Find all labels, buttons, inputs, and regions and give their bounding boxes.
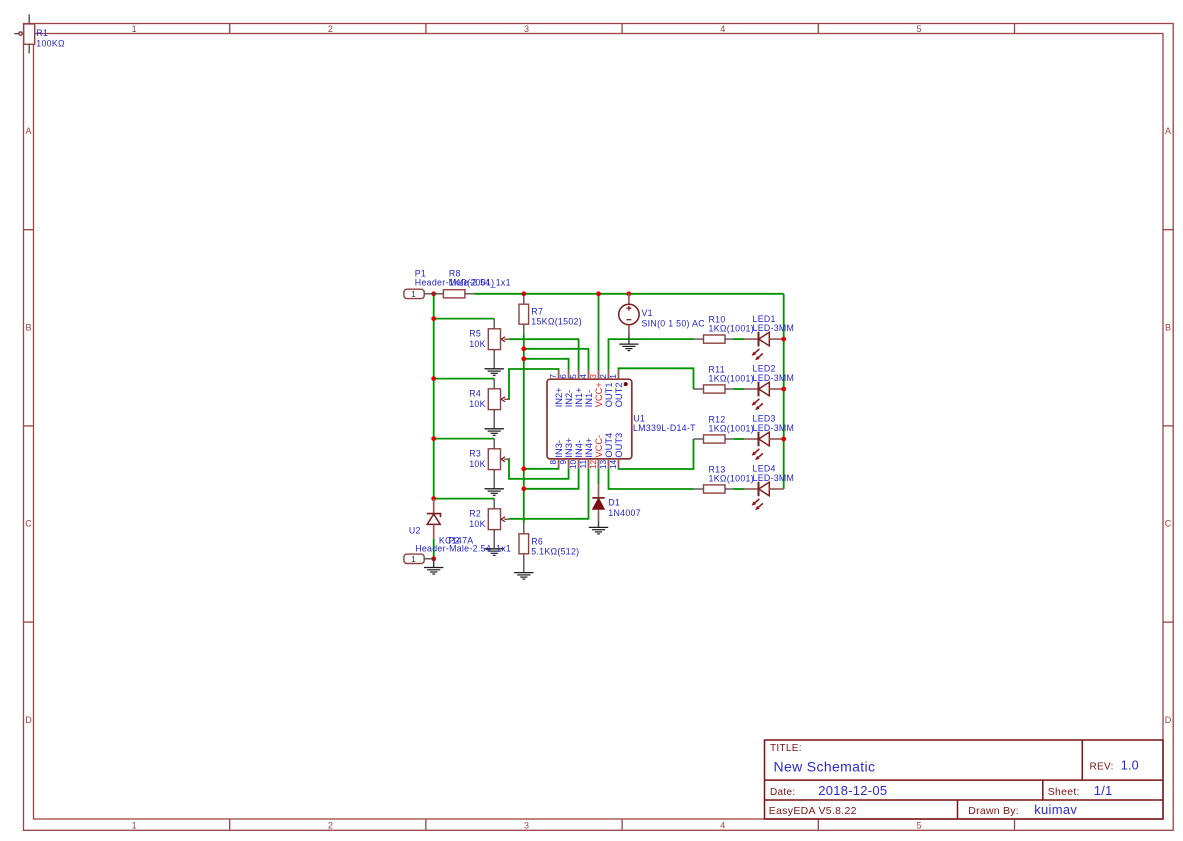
svg-text:C: C (25, 519, 32, 529)
zener diode U2 (427, 499, 441, 539)
svg-text:1/1: 1/1 (1094, 783, 1113, 798)
svg-text:B: B (25, 322, 31, 332)
svg-text:10K: 10K (469, 519, 486, 529)
wire R11 to LED2 (733, 388, 744, 390)
svg-text:OUT2: OUT2 (614, 383, 624, 408)
resistor R1 (14, 14, 35, 53)
junction node chain-pin8 (521, 466, 526, 471)
svg-text:3: 3 (524, 24, 529, 34)
U1 pin1 marker dot (624, 382, 628, 386)
frame row labels right (1165, 126, 1172, 725)
resistor R10 (694, 335, 734, 343)
svg-text:14: 14 (608, 460, 618, 470)
resistor R12 (694, 435, 734, 443)
svg-text:IN3-: IN3- (554, 440, 564, 458)
svg-text:LM339L-D14-T: LM339L-D14-T (633, 423, 696, 433)
junction node bus-R4 (431, 376, 436, 381)
junction node chain-pin10 (521, 486, 526, 491)
junction node P1/R8/bus (431, 291, 436, 296)
ground of R3 (485, 489, 504, 496)
svg-text:VCC-: VCC- (594, 435, 604, 458)
svg-text:R6: R6 (531, 536, 543, 546)
resistor R8 (434, 290, 474, 298)
potentiometer R3 (488, 439, 509, 489)
wire bus to R2 (434, 498, 495, 500)
svg-text:OUT1: OUT1 (604, 383, 614, 408)
svg-text:IN1+: IN1+ (574, 387, 584, 407)
ground of R4 (485, 429, 504, 436)
svg-text:Sheet:: Sheet: (1048, 786, 1080, 798)
svg-text:A: A (25, 126, 31, 136)
svg-text:SIN(0 1 50) AC: SIN(0 1 50) AC (642, 318, 706, 328)
svg-text:VCC+: VCC+ (594, 382, 604, 407)
svg-text:11: 11 (578, 460, 588, 469)
wire pin2 OUT1 to R10 (609, 339, 694, 370)
svg-text:9: 9 (558, 460, 568, 465)
LED LED3 (744, 432, 783, 461)
wire pin12 VCC- to D1 (598, 468, 600, 484)
svg-text:U2: U2 (409, 526, 421, 536)
ground of R6 (514, 573, 533, 580)
svg-text:C: C (1165, 519, 1172, 529)
svg-text:10: 10 (568, 460, 578, 470)
AC source V1 (619, 294, 639, 344)
svg-text:B: B (1165, 322, 1171, 332)
svg-text:15KΩ(1502): 15KΩ(1502) (531, 317, 582, 327)
frame column labels bottom (132, 820, 922, 830)
wire chain to pin4 IN1- (524, 349, 589, 370)
svg-text:R7: R7 (531, 307, 543, 317)
svg-text:5: 5 (568, 374, 578, 379)
diode D1 1N4007 (592, 484, 604, 527)
wire R4 wiper to pin7 IN2+ (509, 369, 559, 399)
svg-text:U1: U1 (633, 413, 645, 423)
svg-text:5.1KΩ(512): 5.1KΩ(512) (531, 547, 579, 557)
potentiometer R4 (488, 379, 509, 429)
wire divider chain R7-R6 (523, 334, 525, 523)
svg-text:OUT4: OUT4 (604, 433, 614, 458)
svg-text:12: 12 (588, 460, 598, 470)
svg-text:R1: R1 (36, 28, 48, 38)
junction node bus-R3 (431, 436, 436, 441)
svg-text:LED-3MM: LED-3MM (753, 473, 795, 483)
wire left bus lower (U2 to P2) (433, 539, 435, 559)
svg-text:IN4-: IN4- (574, 440, 584, 458)
wire chain to pin10 IN4- (524, 468, 579, 489)
svg-text:1KΩ(1001): 1KΩ(1001) (709, 323, 754, 333)
svg-text:REV:: REV: (1090, 762, 1114, 773)
svg-text:D: D (1165, 715, 1172, 725)
svg-text:LED-3MM: LED-3MM (753, 323, 795, 333)
svg-text:1KΩ(1001): 1KΩ(1001) (709, 423, 754, 433)
resistor R13 (694, 485, 734, 493)
resistor R7 pins (523, 294, 525, 334)
svg-text:5: 5 (916, 820, 921, 830)
wire R13 to LED4 (733, 488, 744, 490)
svg-text:4: 4 (720, 820, 725, 830)
U1 bottom pin stubs (559, 459, 619, 468)
header P1 (404, 289, 434, 299)
svg-text:10K: 10K (469, 339, 486, 349)
svg-text:1: 1 (411, 554, 416, 564)
U1 bottom pin numbers 8-14 (548, 460, 618, 470)
svg-text:IN1-: IN1- (584, 390, 594, 408)
svg-text:2: 2 (598, 374, 608, 379)
wire top power rail (474, 293, 784, 295)
svg-text:IN4+: IN4+ (584, 438, 594, 458)
svg-text:1N4007: 1N4007 (608, 508, 641, 518)
svg-text:1KΩ(2001): 1KΩ(2001) (449, 277, 494, 287)
svg-text:EasyEDA V5.8.22: EasyEDA V5.8.22 (769, 805, 857, 817)
svg-text:D: D (25, 715, 32, 725)
svg-text:13: 13 (598, 460, 608, 470)
svg-text:Drawn By:: Drawn By: (968, 805, 1019, 817)
svg-text:kuimav: kuimav (1034, 802, 1077, 817)
wire bus to R3 (434, 438, 495, 440)
svg-text:New Schematic: New Schematic (774, 759, 876, 775)
title block (765, 740, 1164, 819)
junction node bus-R5 (431, 316, 436, 321)
U1 top pin stubs (559, 370, 619, 379)
U1 top pin names (554, 382, 624, 407)
svg-text:A: A (1165, 126, 1171, 136)
svg-text:IN3+: IN3+ (564, 438, 574, 458)
svg-text:100KΩ: 100KΩ (36, 38, 65, 48)
U1 bottom pin names (554, 433, 624, 458)
wire R3 wiper to pin9 IN3+ (509, 459, 569, 479)
header P2 (404, 554, 434, 567)
wire chain to pin8 IN3- (524, 467, 559, 470)
potentiometer R5 (488, 319, 509, 369)
resistor R6 pins (523, 523, 525, 573)
wire pin1 OUT2 to R11 (619, 368, 694, 389)
junction node U2/P2 (431, 556, 436, 561)
svg-text:R4: R4 (469, 389, 481, 399)
LED LED4 (744, 482, 783, 511)
svg-text:LED-3MM: LED-3MM (753, 423, 795, 433)
svg-text:TITLE:: TITLE: (770, 743, 802, 754)
U1 top pin numbers 7-1 (548, 374, 618, 379)
svg-text:7: 7 (548, 374, 558, 379)
svg-text:R2: R2 (469, 509, 481, 519)
svg-text:4: 4 (578, 374, 588, 379)
junction node bus-LED3 (781, 437, 786, 442)
svg-text:10K: 10K (469, 399, 486, 409)
svg-text:2: 2 (328, 820, 333, 830)
svg-text:LED-3MM: LED-3MM (753, 373, 795, 383)
wire bus to R4 (434, 378, 495, 380)
wire rail to pin3 VCC+ (598, 294, 600, 370)
svg-text:Header-Male-2.54_1x1: Header-Male-2.54_1x1 (415, 544, 511, 554)
junction node chain-pin4 (521, 346, 526, 351)
ground of D1 (589, 527, 608, 534)
svg-text:R5: R5 (469, 329, 481, 339)
wire bus to R5 (434, 318, 495, 320)
svg-text:5: 5 (916, 24, 921, 34)
potentiometer R2 (488, 499, 509, 549)
svg-text:4: 4 (720, 24, 725, 34)
resistor R6 (519, 534, 529, 554)
svg-text:1: 1 (411, 289, 416, 299)
junction node bus-LED2 (781, 387, 786, 392)
svg-text:2: 2 (328, 24, 333, 34)
wire left bus upper (433, 294, 435, 499)
svg-text:1: 1 (132, 24, 137, 34)
wire pin14 OUT3 to R12 (619, 439, 694, 469)
ground of R5 (485, 369, 504, 376)
svg-text:D1: D1 (608, 498, 620, 508)
junction node bus-LED1 (781, 337, 786, 342)
svg-text:6: 6 (558, 374, 568, 379)
ground of R2 (485, 549, 504, 556)
junction node R7 top (521, 291, 526, 296)
frame column ticks bottom (230, 819, 1015, 830)
wire pin13 OUT4 to R13 (609, 468, 694, 489)
junction node V1 top (627, 291, 632, 296)
frame column ticks top (230, 24, 1015, 34)
svg-text:IN2+: IN2+ (554, 387, 564, 407)
wire chain to pin6 IN2- (524, 359, 569, 370)
frame row labels left (25, 126, 32, 725)
LED LED1 (744, 332, 783, 361)
svg-text:V1: V1 (642, 308, 653, 318)
svg-text:1KΩ(1001): 1KΩ(1001) (709, 373, 754, 383)
svg-text:1.0: 1.0 (1121, 759, 1139, 773)
op-amp comparator U1 LM339L-D14-T (547, 379, 632, 459)
ground of V1 (619, 344, 638, 351)
svg-text:10K: 10K (469, 459, 486, 469)
svg-text:2018-12-05: 2018-12-05 (818, 783, 887, 798)
svg-text:R3: R3 (469, 449, 481, 459)
junction node bus-R2/U2 (431, 496, 436, 501)
svg-text:3: 3 (588, 374, 598, 379)
wire right VCC bus (783, 294, 785, 489)
wire R2 wiper to pin11 IN4+ (509, 468, 589, 519)
svg-text:1: 1 (608, 374, 618, 379)
junction node chain-pin6 (521, 356, 526, 361)
svg-text:1KΩ(1001): 1KΩ(1001) (709, 473, 754, 483)
wire R10 to LED1 (733, 338, 744, 340)
svg-text:1: 1 (132, 820, 137, 830)
LED LED2 (744, 382, 783, 411)
svg-text:Date:: Date: (770, 787, 795, 798)
svg-text:8: 8 (548, 460, 558, 465)
wire R5 wiper to pin5 IN1+ (509, 339, 579, 370)
resistor R11 (694, 385, 734, 393)
frame row ticks left (24, 230, 34, 622)
ground of P2 (424, 568, 443, 575)
junction node VCC+ rail (596, 291, 601, 296)
svg-text:3: 3 (524, 820, 529, 830)
resistor R7 (519, 304, 529, 324)
svg-text:OUT3: OUT3 (614, 433, 624, 458)
frame column labels top (132, 24, 922, 34)
wire R12 to LED3 (733, 438, 744, 440)
svg-text:IN2-: IN2- (564, 390, 574, 408)
frame row ticks right (1163, 230, 1173, 622)
